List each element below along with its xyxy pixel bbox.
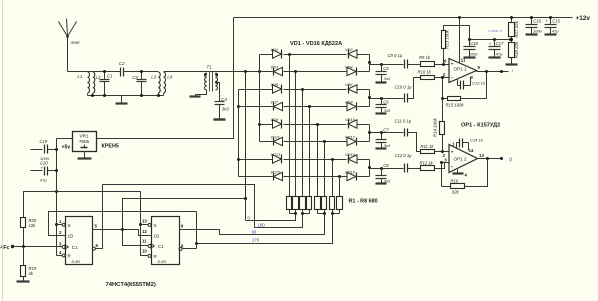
node 4Fc input bbox=[1, 245, 15, 251]
label +12v bbox=[576, 15, 591, 22]
wire VD5 row stub bbox=[239, 89, 273, 91]
wire FF1 Q to FF2 D bbox=[123, 230, 152, 236]
wire row VD7-VD8 with tap node bbox=[284, 105, 347, 108]
svg-text:C1: C1 bbox=[72, 245, 78, 250]
svg-text:VD12: VD12 bbox=[345, 134, 356, 139]
svg-text:90: 90 bbox=[252, 230, 257, 235]
wire VD7 row stub bbox=[239, 106, 273, 108]
diode VD3 bbox=[271, 64, 283, 75]
capacitor C13 (correction) bbox=[458, 74, 486, 89]
wire FF1 Q pin5 bbox=[93, 224, 125, 232]
capacitor C7 3n3 bbox=[376, 128, 392, 149]
wire link VD1 row stub bbox=[260, 54, 273, 56]
regulator VR1 7805 bbox=[73, 132, 97, 152]
svg-text:C13 16: C13 16 bbox=[472, 80, 486, 85]
svg-text:C4: C4 bbox=[221, 97, 227, 102]
wire right pair link 4 bbox=[358, 160, 372, 177]
svg-text:OP1 1: OP1 1 bbox=[454, 66, 467, 71]
wire +12 to VR1 input bbox=[97, 18, 234, 139]
wire chain4 tap to C12 bbox=[370, 167, 404, 170]
svg-text:C19: C19 bbox=[40, 139, 48, 144]
svg-text:D-ff4: D-ff4 bbox=[72, 260, 80, 264]
flip-flop DD1.2 box bbox=[151, 217, 180, 265]
svg-text:C5: C5 bbox=[383, 66, 389, 71]
label 74HCT74 bbox=[106, 282, 156, 288]
wire right pair link 1 bbox=[358, 55, 372, 72]
page border bbox=[2, 1, 4, 301]
svg-text:14: 14 bbox=[469, 148, 474, 153]
ground (VR1) bbox=[78, 152, 92, 159]
label R1-R8 680 bbox=[349, 199, 378, 205]
ground (C8) bbox=[376, 182, 387, 184]
svg-text:C11 0 1μ: C11 0 1μ bbox=[395, 119, 412, 124]
svg-text:C15: C15 bbox=[552, 18, 560, 23]
wire FF1 Q to FF2 C1 bbox=[123, 230, 149, 246]
ground (R18) bbox=[506, 58, 518, 65]
diode VD4 bbox=[345, 64, 357, 75]
wire row VD5-VD6 with tap node bbox=[284, 88, 347, 91]
diode VD15 bbox=[271, 169, 283, 180]
capacitor C6 3n3 bbox=[376, 99, 392, 114]
svg-text:D-ff3: D-ff3 bbox=[158, 260, 167, 264]
svg-text:C14 16: C14 16 bbox=[470, 137, 484, 142]
ground (T1 primary) bbox=[190, 95, 201, 97]
wire tap row2 to R2 bbox=[295, 72, 297, 197]
capacitor C17 +47u bbox=[489, 40, 504, 57]
svg-text:C9 0 1μ: C9 0 1μ bbox=[388, 53, 403, 58]
diode VD2 bbox=[345, 47, 357, 59]
wire row VD15-VD16 with tap node bbox=[284, 175, 347, 178]
capacitor C4 3n3 bbox=[215, 97, 230, 120]
wire right pair link 2 bbox=[358, 90, 372, 107]
svg-text:R9 1k: R9 1k bbox=[419, 55, 431, 60]
svg-text:12: 12 bbox=[142, 229, 147, 234]
wire tap row5 to R5 bbox=[317, 125, 319, 197]
wire tap row8 to R8 bbox=[339, 177, 341, 197]
resistor R5 bbox=[315, 197, 321, 210]
resistor R18 22k bbox=[509, 37, 520, 59]
inductor L2 bbox=[93, 72, 101, 93]
resistor R12 1k bbox=[420, 160, 435, 170]
svg-text:L1: L1 bbox=[77, 74, 82, 79]
ground (C18) bbox=[464, 56, 476, 58]
svg-text:VD5: VD5 bbox=[271, 82, 279, 87]
resistor R8 bbox=[337, 197, 343, 210]
wire L4 to T1 bbox=[164, 71, 216, 73]
svg-text:VD2: VD2 bbox=[345, 47, 353, 52]
wire R11 to OP1.2 +in bbox=[435, 150, 450, 153]
svg-text:S: S bbox=[154, 223, 157, 228]
ground (C7) bbox=[376, 147, 387, 149]
resistor R15 100k bbox=[446, 97, 465, 108]
svg-text:VD7: VD7 bbox=[271, 99, 279, 104]
pin 10 R FF2 bbox=[142, 249, 151, 258]
svg-text:C8: C8 bbox=[383, 163, 389, 168]
wire R pair links bbox=[290, 210, 340, 216]
svg-text:100n: 100n bbox=[469, 51, 479, 56]
capacitor C20 +47u bbox=[31, 160, 57, 182]
resistor R11 1k bbox=[421, 144, 435, 154]
svg-text:R18 22k: R18 22k bbox=[514, 41, 519, 58]
capacitor C19 100n bbox=[31, 139, 57, 161]
wire phase 270 bbox=[195, 214, 333, 246]
diode VD11 bbox=[271, 134, 283, 145]
wire chain3 tap to C11 bbox=[370, 131, 404, 134]
resistor R2 bbox=[293, 197, 299, 210]
resistor R4 bbox=[307, 197, 312, 210]
svg-text:100n: 100n bbox=[533, 28, 543, 33]
pin 13 S FF2 bbox=[142, 218, 151, 226]
pin 3 C FF1 bbox=[59, 241, 65, 248]
pin 12 D FF2 bbox=[142, 229, 147, 234]
svg-text:+: + bbox=[451, 149, 454, 154]
wire OP1.1 pin11 to +12 bbox=[458, 16, 461, 64]
label OP1 K157UD2 bbox=[461, 123, 500, 129]
svg-text:VD6: VD6 bbox=[345, 82, 353, 87]
pin 11 C FF2 bbox=[142, 238, 151, 247]
pin 4 R FF1 bbox=[57, 250, 66, 257]
wire OP1.2 output bbox=[478, 157, 504, 160]
wire 4Fc to FF1 C1 bbox=[13, 245, 63, 248]
svg-text:C1: C1 bbox=[158, 244, 164, 249]
svg-text:13: 13 bbox=[142, 218, 147, 223]
svg-text:КРЕН5: КРЕН5 bbox=[102, 144, 119, 150]
wire C10 up to R10 bbox=[408, 78, 421, 99]
transformer T1 bbox=[204, 65, 218, 92]
wire filter bottom rail bbox=[88, 94, 164, 98]
svg-text:R16: R16 bbox=[451, 178, 459, 183]
diode VD8 bbox=[345, 99, 357, 110]
resistor R19 4k bbox=[21, 247, 37, 277]
wire OP1.1 feedback loop bbox=[461, 72, 487, 99]
ground (C16) bbox=[526, 33, 538, 35]
capacitor C5 3n3 bbox=[376, 65, 392, 82]
capacitor C10 0.1u bbox=[395, 84, 413, 102]
svg-text:R10 1k: R10 1k bbox=[418, 70, 432, 75]
node I output bbox=[512, 69, 514, 74]
wire +5 to R20 bbox=[24, 192, 57, 218]
inductor L1 bbox=[77, 72, 89, 93]
svg-text:VD1: VD1 bbox=[271, 47, 279, 52]
svg-text:180: 180 bbox=[258, 222, 266, 227]
ground (R19) bbox=[17, 277, 30, 282]
wire R9 to OP1.1 +in bbox=[435, 63, 450, 66]
wire tap row7 to R7 bbox=[332, 160, 334, 197]
pin 2 D FF1 bbox=[49, 230, 66, 236]
diode VD16 bbox=[345, 169, 357, 180]
wire VD13 row stub bbox=[239, 159, 273, 161]
svg-text:4Fc: 4Fc bbox=[1, 245, 10, 251]
diode VD9 bbox=[271, 117, 282, 129]
node label 90 bbox=[252, 230, 257, 235]
ground (C15) bbox=[545, 33, 557, 35]
svg-text:C16: C16 bbox=[533, 18, 541, 23]
svg-text:3n3: 3n3 bbox=[384, 76, 391, 81]
wire bias rail bbox=[468, 38, 512, 41]
wire row VD13-VD14 with tap node bbox=[284, 158, 347, 161]
resistor R13 100k bbox=[442, 29, 450, 64]
svg-text:VD10: VD10 bbox=[345, 117, 356, 122]
diode VD5 bbox=[271, 82, 282, 94]
wire tap row3 to R3 bbox=[302, 90, 304, 197]
wire +5v vertical bbox=[55, 139, 58, 256]
ground (C5) bbox=[376, 81, 387, 83]
wire VR1 output +5v bbox=[57, 139, 73, 151]
svg-text:R15 100k: R15 100k bbox=[446, 102, 465, 107]
svg-text:82k: 82k bbox=[452, 189, 460, 194]
svg-text:VD11: VD11 bbox=[271, 134, 280, 139]
svg-text:13: 13 bbox=[479, 153, 484, 158]
resistor R3 bbox=[300, 197, 306, 210]
ground (C17) bbox=[489, 56, 501, 58]
resistor R6 bbox=[322, 197, 327, 210]
ground (C4) bbox=[214, 118, 226, 120]
svg-text:VD15: VD15 bbox=[271, 169, 282, 174]
wire FF1 Q to phase 0 (H2) bbox=[123, 199, 246, 230]
capacitor C18 100n bbox=[464, 40, 479, 57]
svg-text:7805: 7805 bbox=[79, 139, 90, 144]
svg-text:OP1 2: OP1 2 bbox=[454, 156, 467, 161]
svg-text:R1 - R8 680: R1 - R8 680 bbox=[349, 199, 378, 205]
wire top rail L1-L2-C1-C2 bbox=[88, 71, 121, 73]
svg-text:VD4: VD4 bbox=[345, 64, 353, 69]
svg-text:C1: C1 bbox=[107, 74, 113, 79]
op-amp OP1.2 bbox=[443, 141, 485, 172]
svg-text:3n3: 3n3 bbox=[222, 107, 230, 112]
pin 1 S FF1 bbox=[57, 219, 66, 226]
node label 270 bbox=[252, 237, 260, 242]
wire VD15 row stub bbox=[239, 176, 273, 178]
diode VD1 bbox=[271, 47, 282, 59]
wire C9 to R9 bbox=[408, 64, 421, 66]
capacitor C2 (series) bbox=[119, 61, 125, 77]
flip-flop DD1.1 box bbox=[65, 217, 93, 265]
svg-text:+: + bbox=[41, 165, 44, 170]
svg-text:1D: 1D bbox=[68, 233, 75, 238]
wire tap row6 to R6 bbox=[324, 142, 326, 197]
node label 180 bbox=[258, 222, 266, 227]
resistor R17 22k bbox=[509, 16, 520, 38]
capacitor C12 0.1u bbox=[395, 153, 413, 172]
wire chain1 tap to C9 bbox=[370, 63, 404, 67]
diode VD7 bbox=[271, 99, 283, 110]
wire phase 0 bottom bbox=[246, 214, 296, 221]
capacitor C9 0.1u bbox=[388, 53, 408, 68]
svg-text:C10 0 1μ: C10 0 1μ bbox=[395, 84, 413, 89]
node label k vyv 3 bbox=[489, 28, 503, 33]
wire R12 up to OP1.2 -in bbox=[435, 163, 445, 169]
svg-text:−: − bbox=[451, 164, 454, 169]
inductor L4 bbox=[164, 72, 173, 93]
op-amp OP1.1 bbox=[443, 57, 481, 82]
svg-text:270: 270 bbox=[252, 237, 260, 242]
wire antenna to L1 bbox=[68, 71, 88, 73]
resistor R14 100k bbox=[433, 99, 445, 152]
capacitor C15 +47u bbox=[545, 16, 561, 34]
svg-text:C6: C6 bbox=[383, 99, 389, 104]
wire OP1.1 output bbox=[477, 70, 509, 73]
svg-text:1D: 1D bbox=[154, 233, 161, 238]
svg-text:VD16: VD16 bbox=[345, 169, 356, 174]
wire phase 180 bbox=[96, 185, 303, 249]
pin 8 Qbar FF2 bbox=[179, 243, 197, 250]
wire OP1.2 pin4 ground bbox=[453, 170, 468, 178]
inductor L3 bbox=[151, 72, 160, 93]
svg-text:VD3: VD3 bbox=[271, 64, 279, 69]
svg-text:L3: L3 bbox=[151, 75, 156, 80]
wire OP1.2 feedback loop bbox=[465, 159, 488, 187]
capacitor C16 100n bbox=[526, 16, 543, 34]
svg-text:Ант: Ант bbox=[70, 40, 80, 45]
diode VD10 bbox=[345, 117, 357, 129]
svg-text:VD13: VD13 bbox=[271, 152, 282, 157]
svg-text:C2: C2 bbox=[119, 61, 125, 66]
wire R16 to -in riser bbox=[442, 163, 451, 187]
label KREN5 bbox=[102, 144, 119, 150]
wire T1 secondary tap to C4 bbox=[215, 81, 219, 101]
resistor R20 10k bbox=[21, 218, 37, 229]
svg-text:11: 11 bbox=[142, 238, 147, 243]
wire chain2 tap to C10 bbox=[370, 97, 404, 100]
wire R15 to -in riser bbox=[441, 78, 448, 101]
wire C12 to R12 bbox=[408, 168, 421, 170]
resistor R9 1k bbox=[419, 55, 435, 66]
wire R20 to node bbox=[23, 228, 25, 247]
svg-text:+: + bbox=[545, 19, 548, 24]
svg-text:R17 22k: R17 22k bbox=[514, 20, 519, 37]
ground (C6) bbox=[376, 112, 387, 114]
svg-text:R14 100k: R14 100k bbox=[433, 117, 438, 137]
wire right pair link 3 bbox=[358, 125, 372, 142]
svg-text:C12 0 1μ: C12 0 1μ bbox=[395, 153, 413, 158]
wire R13 top to bias bbox=[444, 26, 470, 40]
svg-text:к выв 3: к выв 3 bbox=[489, 28, 503, 33]
svg-text:C17: C17 bbox=[496, 41, 504, 46]
pin 6 Qbar FF1 bbox=[92, 243, 102, 250]
wire phase 0 (V1 RF/0 vertical) bbox=[244, 72, 247, 221]
svg-text:C3: C3 bbox=[132, 75, 138, 80]
wire +12 rail bbox=[234, 17, 573, 19]
diode VD6 bbox=[345, 82, 357, 94]
wire row VD9-VD10 with tap node bbox=[284, 123, 347, 126]
svg-text:VD8: VD8 bbox=[345, 99, 353, 104]
wire C11 down to R11 bbox=[408, 133, 421, 152]
wire T1 to VD3 row (RF node) bbox=[216, 70, 273, 73]
resistor R10 1k bbox=[418, 70, 435, 80]
diode VD12 bbox=[345, 134, 357, 145]
svg-text:VD9: VD9 bbox=[271, 117, 279, 122]
capacitor C1 bbox=[100, 70, 113, 96]
antenna Ant bbox=[59, 19, 80, 72]
wire row VD1-VD2 with tap node bbox=[284, 53, 347, 56]
svg-text:10: 10 bbox=[142, 249, 147, 254]
wire +5 to FF2 S/R bbox=[57, 192, 149, 256]
wire C2 to L3 bbox=[124, 71, 159, 73]
wire phase 90 bbox=[180, 214, 325, 235]
resistor R1 bbox=[287, 197, 292, 210]
svg-text:S: S bbox=[68, 223, 71, 228]
wire FF2 Q pin9 bbox=[181, 224, 184, 229]
wire left bus vertical (VD1..VD9..VD11) bbox=[258, 55, 273, 142]
capacitor C14 (correction) bbox=[457, 137, 484, 150]
svg-text:C18: C18 bbox=[470, 41, 478, 46]
wire tap row4 to R4 bbox=[309, 107, 311, 197]
svg-text:R12 1k: R12 1k bbox=[420, 160, 434, 165]
label VD1 - VD16 KD522A bbox=[290, 41, 342, 47]
wire row VD11-VD12 with tap node bbox=[284, 140, 347, 143]
svg-text:R11 1k: R11 1k bbox=[421, 144, 435, 149]
ground (filter) bbox=[116, 96, 128, 104]
svg-text:47μ: 47μ bbox=[552, 28, 559, 33]
wire FF2 Qbar to FF1 D (H3) bbox=[49, 212, 197, 236]
svg-text:Q: Q bbox=[509, 156, 513, 161]
node Q output bbox=[509, 156, 513, 161]
wire FF2 Q-bar riser bbox=[196, 212, 198, 249]
svg-text:+: + bbox=[489, 41, 492, 46]
resistor R7 bbox=[330, 197, 335, 210]
wire left bus 2 vertical bbox=[237, 90, 240, 177]
capacitor C11 0.1u bbox=[395, 119, 412, 137]
svg-text:ОР1 - К157УД2: ОР1 - К157УД2 bbox=[461, 123, 500, 129]
node label 0 bbox=[248, 215, 251, 220]
svg-text:47μ: 47μ bbox=[40, 177, 47, 182]
svg-text:10k: 10k bbox=[29, 223, 37, 228]
wire tap row1 to R1 bbox=[289, 55, 291, 197]
svg-text:47μ: 47μ bbox=[496, 51, 503, 56]
capacitor C3 bbox=[132, 70, 146, 96]
diode VD14 bbox=[345, 152, 357, 164]
svg-text:−: − bbox=[451, 76, 454, 81]
svg-text:T1: T1 bbox=[207, 65, 213, 70]
resistor R16 82k bbox=[451, 178, 465, 194]
svg-text:+5v: +5v bbox=[62, 144, 71, 150]
wire T1 primary bottom to ground bbox=[196, 91, 207, 97]
svg-text:VD14: VD14 bbox=[345, 152, 356, 157]
svg-text:VD1 - VD16 КД522А: VD1 - VD16 КД522А bbox=[290, 41, 342, 47]
wire OP1.2 -in bbox=[440, 161, 450, 164]
capacitor C8 3n3 bbox=[376, 163, 392, 184]
wire R10 to OP1.1 -in bbox=[435, 76, 450, 79]
wire row VD3-VD4 with tap node bbox=[284, 70, 347, 73]
diode VD13 bbox=[271, 152, 282, 164]
svg-text:R13 100k: R13 100k bbox=[445, 29, 450, 49]
svg-text:L4: L4 bbox=[167, 75, 172, 80]
svg-text:+12v: +12v bbox=[576, 15, 591, 22]
svg-text:C7: C7 bbox=[383, 128, 389, 133]
svg-text:74HCT4(К555ТМ2): 74HCT4(К555ТМ2) bbox=[106, 282, 156, 288]
